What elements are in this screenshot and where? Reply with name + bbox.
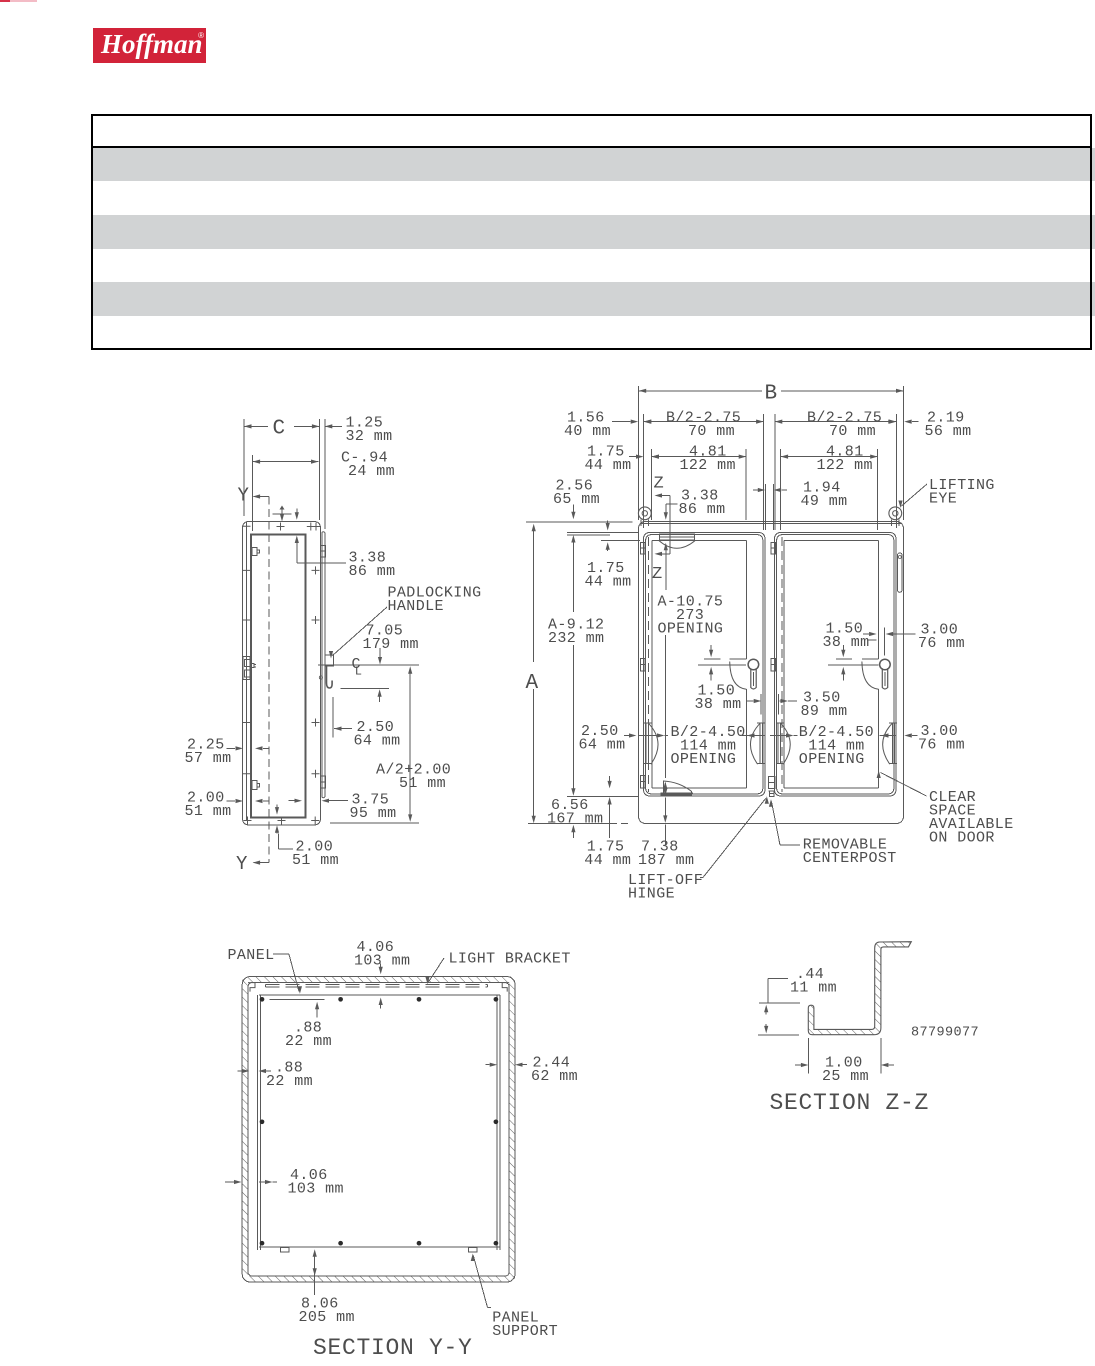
dim B/2-2.75 left [644,420,764,424]
side view panel (thick rect) [251,535,306,818]
svg-text:51 mm: 51 mm [185,803,232,820]
dim 4.81 left [652,449,747,520]
svg-text:70 mm: 70 mm [688,423,735,440]
right door edge extension [896,414,898,528]
svg-text:22 mm: 22 mm [285,1033,332,1050]
dim text 1.25 32 mm [346,415,393,446]
right door opening [784,541,878,789]
door bottom extension [567,795,638,797]
dim text 2.50 64 mm side [354,719,401,750]
dim text 1.00 25 mm [822,1055,869,1086]
label Z top [654,475,665,494]
panel support leader [471,1254,491,1308]
svg-text:SUPPORT: SUPPORT [492,1323,558,1340]
dim text C-.94 24 mm [341,450,395,481]
svg-text:C: C [273,418,286,441]
side view bottom crosses [244,817,320,825]
cup dim line right door left [770,733,798,737]
lifting eye right [889,507,902,526]
side view top screw [273,506,292,522]
svg-text:64 mm: 64 mm [579,737,626,754]
dim text 2.44 62 mm [531,1055,578,1086]
cup dim line left door right [742,733,766,737]
wall hook top right [502,983,509,992]
side view door hinge bottom [321,776,326,788]
dim text 3.38 86 mm side [349,550,396,581]
label 87799077 [911,1026,979,1041]
dim 2.00 bottom arrows [275,805,293,849]
hinge cl extension [651,449,653,520]
dim text 3.38 86 mm front [679,488,726,519]
side view top flange crosses [243,522,321,530]
label C [273,418,286,441]
hinge pin line [663,635,667,845]
left door handle [748,659,759,689]
svg-text:89 mm: 89 mm [801,703,848,720]
svg-text:51 mm: 51 mm [292,852,339,869]
label LIGHT BRACKET [449,951,571,968]
svg-text:SECTION Y-Y: SECTION Y-Y [313,1335,473,1361]
side view door front strip [322,532,325,798]
light bracket leader [425,958,444,984]
red corner smudge [0,0,10,2]
dim 2.50 side [333,697,352,737]
latch cup left door left [644,723,658,764]
latch cup left door right [750,723,764,764]
svg-text:HANDLE: HANDLE [388,598,444,615]
svg-text:OPENING: OPENING [799,751,865,768]
svg-text:44 mm: 44 mm [585,574,632,591]
dim 3.38 side arrow [295,536,346,564]
spec table gray row 3 [92,282,1095,316]
side view right crosses [312,566,320,777]
wall hook top left [248,983,255,992]
dim C line [244,424,319,428]
latch cup right door left [776,723,790,764]
svg-text:179 mm: 179 mm [363,636,419,653]
panel leader [273,954,302,994]
side view handle [319,655,333,688]
label PANEL [228,947,275,964]
lifting eye leader [898,484,927,508]
label A [526,672,539,695]
lifting eye left [638,507,651,526]
dim text 2.56 65 mm [553,478,600,509]
clear space leader [877,771,927,797]
svg-text:L: L [355,665,363,679]
svg-text:EYE: EYE [929,491,957,508]
dim 1.75 bottom line [608,776,612,838]
dim 3.00 bottom right arrow [904,733,917,737]
dim 3.38 front leader [655,504,678,556]
svg-text:Z: Z [652,565,663,584]
dim 1.25 arrow [325,424,342,428]
label B [765,383,778,406]
dim text 4.81 left [680,444,736,475]
svg-text:38 mm: 38 mm [695,696,742,713]
dim text 3.00 76 mm bottom [918,723,965,754]
right door hinge centerline [781,537,783,792]
svg-text:65 mm: 65 mm [553,491,600,508]
panel bottom line [259,1246,500,1248]
dim 3.00 top right arrows [863,627,916,655]
front enclosure outline [639,522,904,824]
left door hinge knuckles [641,543,645,789]
svg-text:44 mm: 44 mm [584,852,631,869]
dim 4.81 right [781,449,878,530]
dim text .88 22 mm upper [285,1020,332,1051]
dim .44 bracket [759,978,800,1003]
handle centerline [318,664,419,666]
dim 1.00 extensions [808,1038,881,1074]
label PANEL SUPPORT [492,1310,558,1341]
svg-text:OPENING: OPENING [671,751,737,768]
label Y top [238,485,250,507]
svg-text:86 mm: 86 mm [349,563,396,580]
dim A/2+2.00 line [330,666,419,823]
spec table border [91,114,1092,350]
dim text .44 11 mm [790,966,837,997]
dim A-9.12 line [571,535,575,796]
label Z bottom [652,565,663,584]
title SECTION Y-Y [313,1335,473,1361]
dim B line [639,389,904,393]
right door outline [775,533,897,797]
svg-text:205 mm: 205 mm [299,1309,355,1326]
title SECTION Z-Z [770,1090,930,1116]
dim text .88 22 mm lower [266,1060,313,1091]
svg-text:51 mm: 51 mm [399,775,446,792]
removable centerpost leader [769,799,800,845]
door stop slot [898,553,902,593]
dim .88 upper [270,999,325,1017]
dim 3.50 arrows [747,694,797,715]
spec table gray row 2 [92,215,1095,249]
dim 2.00 left arrows [227,799,270,803]
dim 1.00 arrows [795,1063,894,1067]
dim text 7.38 187 mm [638,839,694,870]
label LIFTING EYE [929,477,995,508]
svg-text:167 mm: 167 mm [547,811,603,828]
svg-text:62 mm: 62 mm [531,1068,578,1085]
cup dim line right door right [880,733,897,737]
dim 1.50 right arrows [836,645,852,680]
side view inner flange line [245,527,247,820]
Hoffman logo [93,28,206,63]
svg-text:70 mm: 70 mm [829,423,876,440]
dim 8.06 line [313,1249,317,1295]
left door outline [644,533,766,797]
left handle centerline [698,664,746,666]
svg-text:76 mm: 76 mm [918,635,965,652]
svg-text:49 mm: 49 mm [801,493,848,510]
svg-text:76 mm: 76 mm [918,737,965,754]
door top extension lines [567,532,638,535]
dim 1.75 top arrows [629,455,666,459]
dim text 2.19 56 mm [925,410,972,441]
dim text 7.05 179 mm [363,623,419,654]
svg-text:87799077: 87799077 [911,1026,979,1041]
svg-text:103 mm: 103 mm [288,1181,344,1198]
dim C-.94 line [253,455,319,531]
svg-text:56 mm: 56 mm [925,423,972,440]
dim text 3.50 89 mm [801,690,848,721]
panel top line [259,994,500,996]
dim text 1.50 38 mm right [823,621,877,652]
dim C extension lines [244,419,325,529]
door edge extension [643,414,645,528]
right door hinge knuckles [771,543,775,672]
dim 1.50 left arrows [704,645,720,680]
dim text 3.00 76 mm top [918,622,965,653]
label A-10.75 273 OPENING [658,594,724,638]
svg-text:11 mm: 11 mm [790,980,837,997]
section Y-Y wall hatch [242,977,515,1282]
svg-text:32 mm: 32 mm [346,428,393,445]
svg-text:57 mm: 57 mm [185,750,232,767]
padlocking handle leader [329,607,387,659]
dim 3.75 arrows [289,799,348,803]
svg-text:A: A [526,672,539,695]
dim text A/2+2.00 51 mm [376,762,451,793]
dim B extension lines [639,386,904,520]
dim 4.06 mid arrows [225,1180,277,1184]
dim 1.56 arrows [612,420,659,424]
label LIFT-OFF HINGE [628,872,703,903]
svg-text:SECTION Z-Z: SECTION Z-Z [770,1090,930,1116]
dim .88 lower arrows [238,1069,272,1073]
svg-text:Z: Z [654,475,665,494]
dim text 8.06 205 mm [299,1296,355,1327]
light bracket dashed [266,984,488,987]
dim 7.05 lower arrow [341,689,389,703]
dim 2.44 arrows [486,1063,528,1067]
svg-text:LIGHT BRACKET: LIGHT BRACKET [449,951,571,968]
svg-text:38 mm: 38 mm [823,634,870,651]
svg-text:HINGE: HINGE [628,886,675,903]
opening top extension [601,540,640,542]
dim 1.75 mid arrows [606,521,610,551]
dim text 3.75 95 mm [350,792,397,823]
centerline symbol [352,656,363,679]
side view latch assembly [243,657,256,680]
side view panel clip upper [252,548,260,556]
section Y-Y outer wall [242,977,515,1282]
dim 2.25 arrows [227,746,270,750]
svg-text:ON DOOR: ON DOOR [929,830,995,847]
section cut line Y-Y [268,497,270,863]
dim text 4.06 103 mm mid [288,1167,344,1198]
cut Y bottom stub [253,861,269,865]
dim text B/2-2.75 left [666,410,741,441]
svg-text:PANEL: PANEL [228,947,275,964]
lift-off hinge leader [700,796,769,877]
svg-text:OPENING: OPENING [658,621,724,638]
right door handle [880,659,891,689]
side view panel clip lower [252,781,260,790]
dim text 1.75 44 mm mid [585,560,632,591]
dim 2.19 arrows [887,420,919,424]
svg-text:95 mm: 95 mm [350,805,397,822]
bottom extension line [528,823,632,825]
dim text 2.00 51 mm bottom [292,839,339,870]
panel support clip left [281,1248,290,1253]
svg-text:24 mm: 24 mm [348,463,395,480]
dim text B/2-4.50 left [671,724,746,768]
dim text 6.56 167 mm [547,797,603,828]
dim text 1.56 40 mm [564,410,611,441]
svg-text:40 mm: 40 mm [564,423,611,440]
dim text B/2-2.75 right [807,410,882,441]
dim text 2.00 51 mm left [185,790,232,821]
left door opening [652,541,746,789]
left door hinge centerline [648,537,650,792]
label CLEAR SPACE AVAILABLE ON DOOR [929,789,1014,847]
dim A line [532,524,536,824]
cut Z top stub [655,493,671,554]
dim text 4.06 103 mm top [354,939,410,970]
section Z-Z profile [808,942,911,1035]
left door bottom hinge [661,781,694,797]
side view left crosses [243,566,251,777]
svg-text:B: B [765,383,778,406]
rail extension line [259,1009,261,1078]
dim text 1.50 38 mm left [695,683,742,714]
dim 2.50 front arrow [624,733,636,737]
dim 6.56 arrows [571,825,575,838]
dim 4.06 top arrows [379,964,383,1009]
svg-text:CENTERPOST: CENTERPOST [803,850,897,867]
svg-text:187 mm: 187 mm [638,852,694,869]
label REMOVABLE CENTERPOST [803,837,897,868]
dim text B/2-4.50 right [799,724,874,768]
panel rail right [497,995,500,1250]
svg-text:44 mm: 44 mm [585,457,632,474]
side view screw down arrow [295,509,299,520]
svg-text:64 mm: 64 mm [354,733,401,750]
dim text 1.94 49 mm [801,480,848,511]
side view door hinge top [321,546,326,558]
dim 2.56 arrow [526,505,633,523]
dim text 2.50 64 mm front [579,723,626,754]
label A-9.12 232 mm [548,617,604,648]
label PADLOCKING HANDLE [388,585,482,616]
left door latch bracket top [659,534,695,548]
center extensions [764,414,775,530]
dim text 1.75 44 mm top [585,444,632,475]
cut Y top stub [253,494,269,498]
panel rail left [258,995,261,1250]
side view enclosure outline [243,522,321,826]
dim 7.05 arrow [378,648,382,665]
spec table header separator [91,146,1092,148]
removable centerpost bottom [768,777,775,797]
svg-text:Y: Y [236,853,248,875]
spec table gray row 1 [92,148,1095,182]
svg-text:122 mm: 122 mm [680,457,736,474]
section Y-Y inner wall [248,983,509,1276]
dim B/2-2.75 right [775,420,897,424]
latch cup right door right [883,723,897,764]
label Y bottom [236,853,248,875]
right handle centerline [828,664,878,666]
dim text 1.75 44 mm bottom [584,839,631,870]
dim .44 arrows [758,1005,799,1035]
svg-text:22 mm: 22 mm [266,1073,313,1090]
dim text 4.81 right [817,444,873,475]
panel mounting dots [260,997,499,1246]
svg-text:25 mm: 25 mm [822,1068,869,1085]
svg-text:122 mm: 122 mm [817,457,873,474]
cup dim line left door left [639,733,669,737]
panel support clip right [468,1248,477,1253]
svg-text:86 mm: 86 mm [679,501,726,518]
dim 1.94 arrows [753,484,787,530]
svg-text:232 mm: 232 mm [548,630,604,647]
cut Z bottom arrow [665,553,667,590]
dim text 2.25 57 mm [185,737,232,768]
